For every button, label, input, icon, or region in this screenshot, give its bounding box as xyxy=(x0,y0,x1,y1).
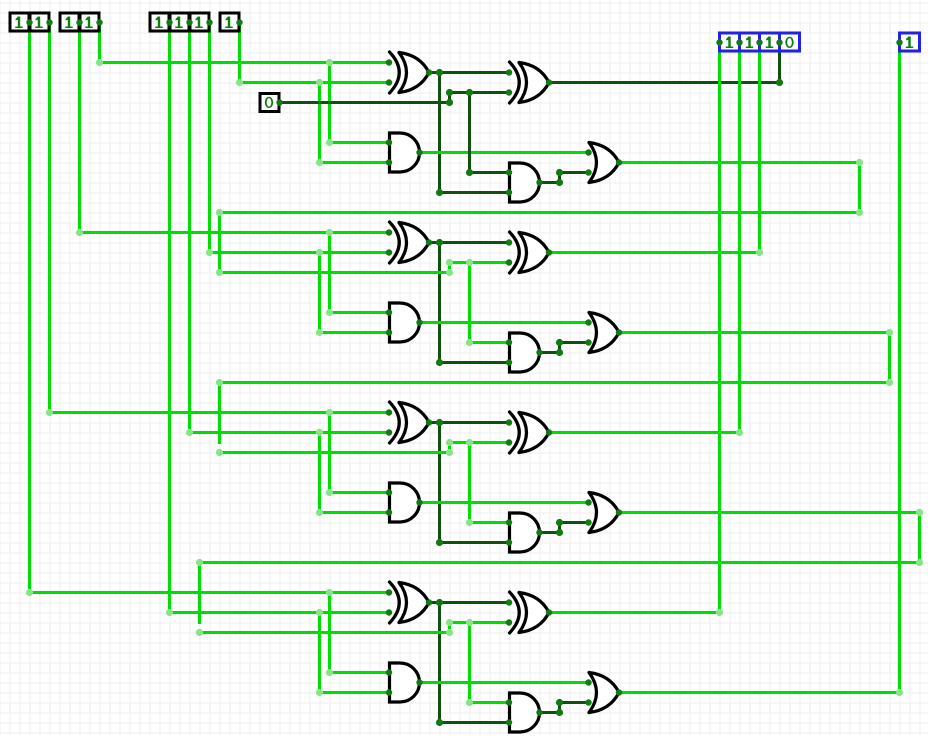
pin connection dot B2 xyxy=(186,19,192,25)
junction A tap stage2 xyxy=(326,229,333,236)
junction loop right bottom corner stage2 xyxy=(886,379,893,386)
AND gate U1C (A and B) xyxy=(386,133,423,172)
AND gate U2C (A and B) xyxy=(386,303,423,342)
junction carry jog high corner stage3 xyxy=(446,439,453,446)
junction A-AND1 corner stage3 xyxy=(326,489,333,496)
junction A tap stage1 xyxy=(326,59,333,66)
junction carry jog low corner stage1 xyxy=(446,99,453,106)
wire sum0: XOR2.out stage1 to output pin S0 (0) xyxy=(549,43,780,83)
wire AND1.out to OR.a stage3 (1) xyxy=(420,501,590,504)
junction loop left corner stage3 xyxy=(196,559,203,566)
input pin B2 (value 1) xyxy=(170,13,189,31)
wire sum: XOR2.out stage2 to output pin (1) xyxy=(549,43,760,253)
input pin B0 (value 1) xyxy=(220,13,239,31)
wire XOR1.out to XOR2.a stage3 (0) xyxy=(429,421,509,424)
AND gate U3C (A and B) xyxy=(386,483,423,522)
junction carry-AND2 corner stage3 xyxy=(466,519,473,526)
wire A branch to AND1.a stage4 (1) xyxy=(330,593,390,673)
output pin S0 (value 0) xyxy=(780,33,800,51)
wire Cin branch to AND2.a stage1 (0) xyxy=(470,93,510,173)
wire input B1 pin to XOR1.b stage3 (1) xyxy=(190,23,390,433)
junction sum corner stage2 xyxy=(756,249,763,256)
input pin B3 (value 1) xyxy=(150,13,169,31)
junction carry tap stage3 xyxy=(466,439,473,446)
wire input A0 pin to XOR1.a stage4 (1) xyxy=(30,23,390,593)
pin connection dot S0 xyxy=(776,39,782,45)
pin connection dot B1 xyxy=(206,19,212,25)
junction sum corner stage3 xyxy=(736,429,743,436)
XOR gate U1A (A xor B) xyxy=(386,52,432,93)
XOR gate U3B (sum) xyxy=(506,412,552,453)
junction A corner stage1 xyxy=(96,59,103,66)
junction B corner stage3 xyxy=(186,429,193,436)
pin connection dot S3 xyxy=(716,39,722,45)
wire input B0 pin to XOR1.b stage4 (1) xyxy=(170,23,390,613)
junction loop right top corner stage3 xyxy=(916,509,923,516)
junction A-AND1 corner stage1 xyxy=(326,139,333,146)
wire XOR1.out branch to AND2.b stage1 (0) xyxy=(440,73,510,193)
junction XOR1-AND2 corner stage4 xyxy=(436,719,443,726)
junction carry-AND2 corner stage1 xyxy=(466,169,473,176)
junction XOR1.out tap stage1 xyxy=(436,69,443,76)
wire input A3 pin to XOR1.a stage1 (1) xyxy=(100,23,390,63)
wire AND2.out to OR.b stage1 (0) xyxy=(539,173,589,183)
junction B tap stage4 xyxy=(316,609,323,616)
junction B-AND1 corner stage2 xyxy=(316,329,323,336)
junction loop left corner stage2 xyxy=(216,379,223,386)
pin connection dot B0 xyxy=(236,19,242,25)
junction XOR1.out tap stage4 xyxy=(436,599,443,606)
pin connection dot Cout xyxy=(896,39,902,45)
junction XOR1-AND2 corner stage2 xyxy=(436,359,443,366)
junction A corner stage3 xyxy=(46,409,53,416)
output pin S3 (value 1) xyxy=(720,33,740,51)
junction carry jog low corner stage4 xyxy=(446,629,453,636)
wire carry branch to AND2.a stage3 (1) xyxy=(470,443,510,523)
OR gate U3E (carry out) xyxy=(585,493,622,533)
wire A branch to AND1.a stage1 (1) xyxy=(330,63,390,143)
junction carry tap stage1 xyxy=(466,89,473,96)
junction AND2 jog high corner stage4 xyxy=(556,699,563,706)
wire AND2.out to OR.b stage2 (0) xyxy=(539,343,589,353)
AND gate U1D (carry and) xyxy=(506,163,543,202)
pin connection dot A2 xyxy=(46,19,52,25)
junction carry-out corner stage4 xyxy=(896,689,903,696)
junction carry jog high corner stage2 xyxy=(446,259,453,266)
pin connection dot A1 xyxy=(76,19,82,25)
junction carry-AND2 corner stage2 xyxy=(466,339,473,346)
wire carry out: OR.out stage4 to Cout pin (1) xyxy=(619,43,900,693)
junction XOR1-AND2 corner stage3 xyxy=(436,539,443,546)
junction carry tap stage2 xyxy=(466,259,473,266)
pin connection dot A0 xyxy=(96,19,102,25)
wire carry branch to AND2.a stage2 (1) xyxy=(470,263,510,343)
wire carry-in to XOR2.b stage3 (1) xyxy=(220,443,510,453)
input pin A2 (value 1) xyxy=(30,13,49,31)
junction XOR1-AND2 corner stage1 xyxy=(436,189,443,196)
wire AND1.out to OR.a stage1 (1) xyxy=(420,151,590,154)
wire input B3 pin to XOR1.b stage1 (1) xyxy=(240,23,390,83)
wire AND1.out to OR.a stage4 (1) xyxy=(420,681,590,684)
junction B-AND1 corner stage3 xyxy=(316,509,323,516)
junction XOR1.out tap stage2 xyxy=(436,239,443,246)
wire XOR1.out branch to AND2.b stage4 (0) xyxy=(440,603,510,723)
pin connection dot A3 xyxy=(26,19,32,25)
wire B branch to AND1.b stage3 (1) xyxy=(320,433,390,513)
output pin Cout (value 1) xyxy=(900,33,920,51)
wire Cin pin to XOR2.b stage1 (0) xyxy=(280,93,510,103)
junction loop left corner stage1 xyxy=(216,209,223,216)
junction B-AND1 corner stage4 xyxy=(316,689,323,696)
junction carry jog low corner stage3 xyxy=(446,449,453,456)
wire A branch to AND1.a stage2 (1) xyxy=(330,233,390,313)
junction B tap stage1 xyxy=(316,79,323,86)
wire B branch to AND1.b stage2 (1) xyxy=(320,253,390,333)
XOR gate U4B (sum) xyxy=(506,592,552,633)
junction carry-in corner stage3 xyxy=(216,449,223,456)
junction A-AND1 corner stage4 xyxy=(326,669,333,676)
junction B-AND1 corner stage1 xyxy=(316,159,323,166)
wire carry-in to XOR2.b stage4 (1) xyxy=(200,623,510,633)
wire AND2.out to OR.b stage3 (0) xyxy=(539,523,589,533)
input pin A0 (value 1) xyxy=(80,13,99,31)
XOR gate U2A (A xor B) xyxy=(386,222,432,263)
junction loop right bottom corner stage1 xyxy=(856,209,863,216)
wire XOR1.out branch to AND2.b stage3 (0) xyxy=(440,423,510,543)
junction AND2 jog high corner stage2 xyxy=(556,339,563,346)
wire input A2 pin to XOR1.a stage2 (1) xyxy=(80,23,390,233)
wire carry loop: OR.out stage3 to stage4 (1) xyxy=(200,513,920,623)
input pin Cin (value 0) xyxy=(260,94,283,112)
junction B tap stage2 xyxy=(316,249,323,256)
pin connection dot S2 xyxy=(736,39,742,45)
wire carry branch to AND2.a stage4 (1) xyxy=(470,623,510,703)
output pin S1 (value 1) xyxy=(760,33,780,51)
wire AND1.out to OR.a stage2 (1) xyxy=(420,321,590,324)
wire A branch to AND1.a stage3 (1) xyxy=(330,413,390,493)
junction carry-AND2 corner stage4 xyxy=(466,699,473,706)
junction B corner stage1 xyxy=(236,79,243,86)
wire XOR1.out to XOR2.a stage2 (0) xyxy=(429,241,509,244)
AND gate U4D (carry and) xyxy=(506,693,543,732)
junction sum corner stage1 xyxy=(776,79,783,86)
junction AND2 jog high corner stage3 xyxy=(556,519,563,526)
wire carry loop: OR.out stage2 to stage3 (1) xyxy=(220,333,890,443)
junction A corner stage2 xyxy=(76,229,83,236)
junction loop right bottom corner stage3 xyxy=(916,559,923,566)
OR gate U2E (carry out) xyxy=(585,313,622,353)
junction XOR1.out tap stage3 xyxy=(436,419,443,426)
output pin S2 (value 1) xyxy=(740,33,760,51)
wire sum: XOR2.out stage4 to output pin (1) xyxy=(549,43,720,613)
junction AND2 jog low corner stage1 xyxy=(556,179,563,186)
pin connection dot B3 xyxy=(166,19,172,25)
XOR gate U4A (A xor B) xyxy=(386,582,432,623)
junction loop right top corner stage1 xyxy=(856,159,863,166)
junction AND2 jog high corner stage1 xyxy=(556,169,563,176)
junction B corner stage4 xyxy=(166,609,173,616)
junction carry tap stage4 xyxy=(466,619,473,626)
wire XOR1.out branch to AND2.b stage2 (0) xyxy=(440,243,510,363)
XOR gate U3A (A xor B) xyxy=(386,402,432,443)
wire B branch to AND1.b stage4 (1) xyxy=(320,613,390,693)
junction AND2 jog low corner stage2 xyxy=(556,349,563,356)
junction carry jog low corner stage2 xyxy=(446,269,453,276)
wire input A1 pin to XOR1.a stage3 (1) xyxy=(50,23,390,413)
wire XOR1.out to XOR2.a stage4 (0) xyxy=(429,601,509,604)
junction A tap stage4 xyxy=(326,589,333,596)
junction loop right top corner stage2 xyxy=(886,329,893,336)
junction carry-in corner stage4 xyxy=(196,629,203,636)
AND gate U2D (carry and) xyxy=(506,333,543,372)
wire XOR1.out to XOR2.a stage1 (0) xyxy=(429,71,509,74)
OR gate U1E (carry out) xyxy=(585,143,622,183)
junction A corner stage4 xyxy=(26,589,33,596)
junction carry jog high corner stage1 xyxy=(446,89,453,96)
junction sum corner stage4 xyxy=(716,609,723,616)
junction carry-in corner stage2 xyxy=(216,269,223,276)
junction AND2 jog low corner stage3 xyxy=(556,529,563,536)
AND gate U3D (carry and) xyxy=(506,513,543,552)
junction A-AND1 corner stage2 xyxy=(326,309,333,316)
wire AND2.out to OR.b stage4 (0) xyxy=(539,703,589,713)
input pin A3 (value 1) xyxy=(10,13,29,31)
wire sum: XOR2.out stage3 to output pin (1) xyxy=(549,43,740,433)
wire carry loop: OR.out stage1 to stage2 (1) xyxy=(220,163,860,273)
XOR gate U1B (sum) xyxy=(506,62,552,103)
wire input B2 pin to XOR1.b stage2 (1) xyxy=(210,23,390,253)
OR gate U4E (carry out) xyxy=(585,673,622,713)
pin connection dot S1 xyxy=(756,39,762,45)
junction A tap stage3 xyxy=(326,409,333,416)
junction B tap stage3 xyxy=(316,429,323,436)
junction carry jog high corner stage4 xyxy=(446,619,453,626)
wire carry-in to XOR2.b stage2 (1) xyxy=(220,263,510,273)
wire B branch to AND1.b stage1 (1) xyxy=(320,83,390,163)
junction AND2 jog low corner stage4 xyxy=(556,709,563,716)
XOR gate U2B (sum) xyxy=(506,232,552,273)
AND gate U4C (A and B) xyxy=(386,663,423,702)
input pin A1 (value 1) xyxy=(60,13,79,31)
junction B corner stage2 xyxy=(206,249,213,256)
input pin B1 (value 1) xyxy=(190,13,209,31)
